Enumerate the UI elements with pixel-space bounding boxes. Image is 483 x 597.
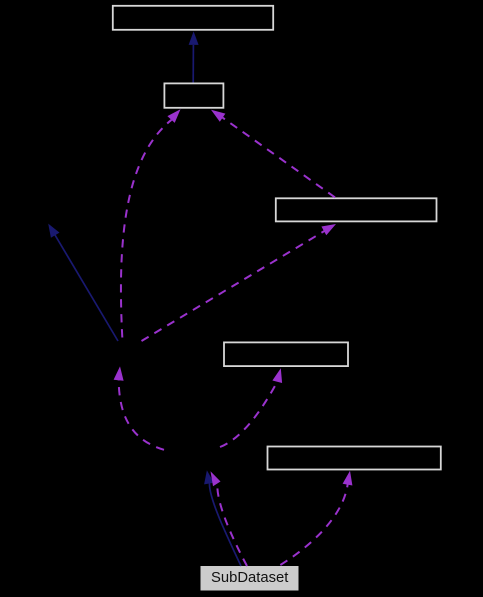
usage edge: node B -> node A (dashed purple) [114,366,164,449]
inheritance edge: node A -> upper-left (solid blue) [48,224,118,341]
usage edge: node A -> box3 bottom (dashed purple) [142,224,337,341]
SubDataset node box [201,567,298,591]
class box 4 (middle) [224,342,348,366]
inheritance edge: SubDataset -> node B (solid blue) [204,470,241,566]
class box 2 [164,83,223,107]
class box 1 (top) [113,6,273,30]
usage edge: node B -> box4 bottom (dashed purple) [220,368,282,447]
class box 3 (right) [276,198,437,221]
usage edge: SubDataset -> node B (dashed purple) [211,471,248,566]
class box 5 (lower right) [268,447,441,470]
usage edge: box3 -> box2 right (dashed purple) [211,110,335,198]
usage edge: node A -> box2 left (dashed purple) [121,109,181,337]
usage edge: SubDataset -> box5 bottom (dashed purple) [277,471,352,567]
svg-text:SubDataset: SubDataset [211,570,288,586]
inheritance edge: box2 -> box1 (solid blue) [189,31,199,82]
